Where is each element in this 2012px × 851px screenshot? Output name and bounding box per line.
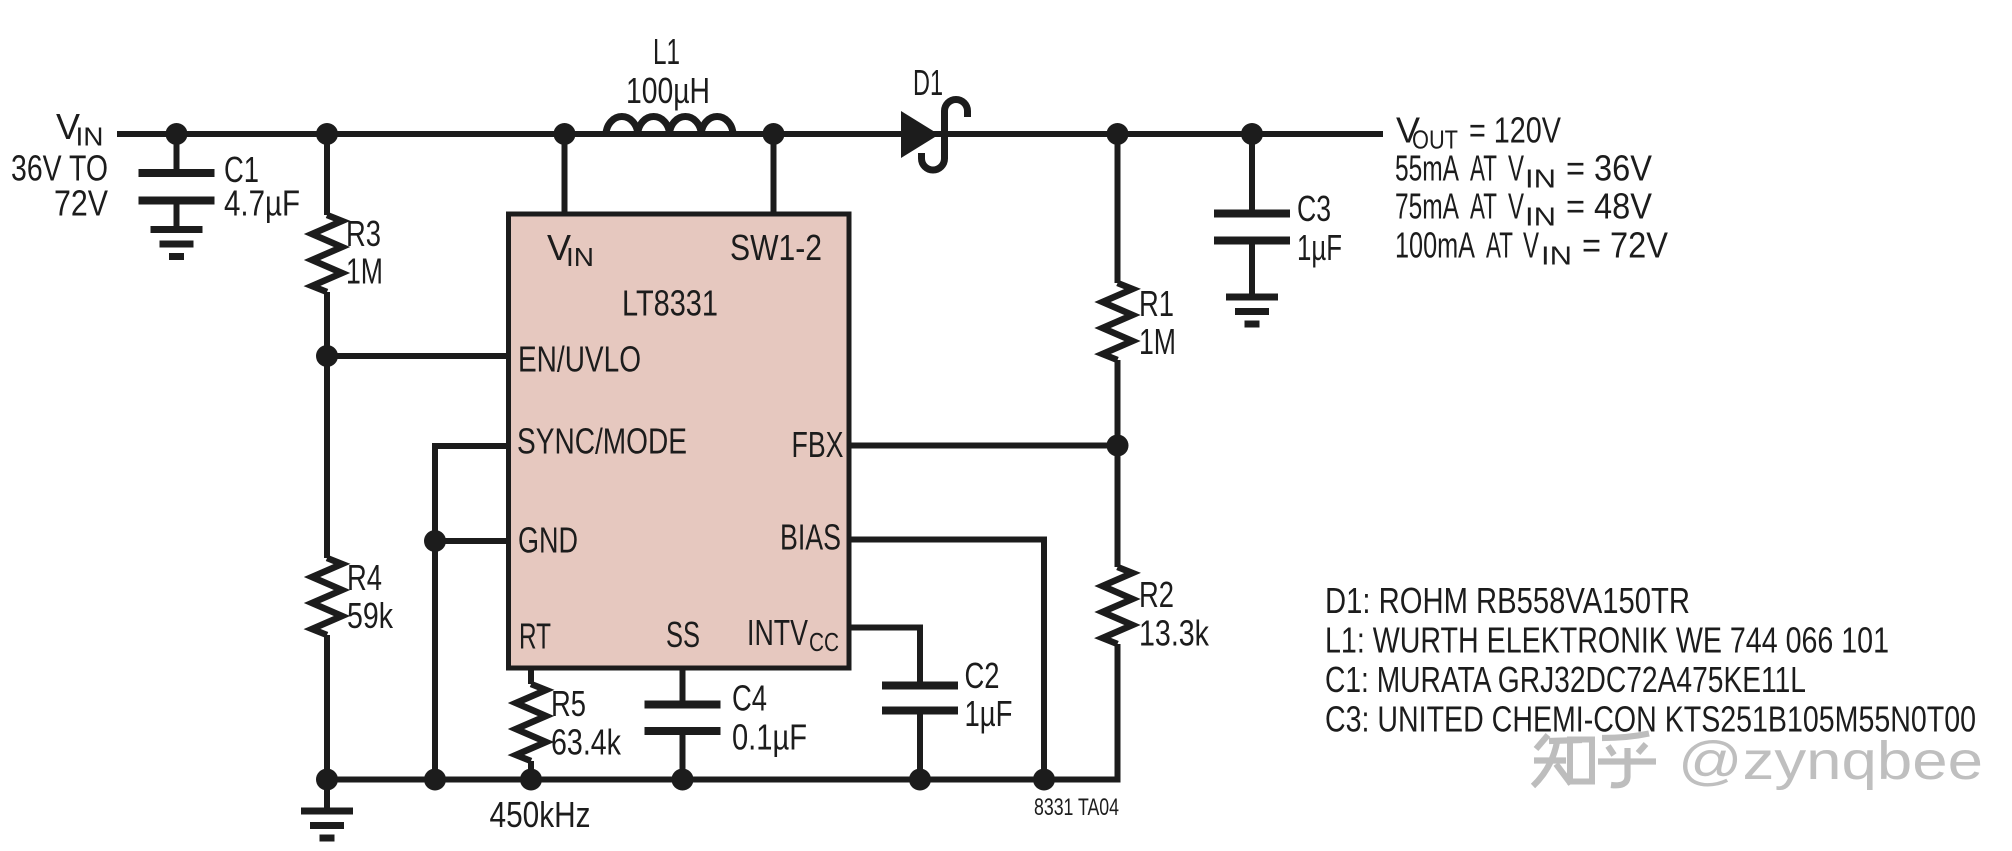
svg-text:= 48V: = 48V bbox=[1566, 186, 1652, 227]
svg-text:@zynqbee: @zynqbee bbox=[1678, 731, 1983, 791]
svg-text:CC: CC bbox=[809, 627, 839, 657]
wire: C4 lower lead bbox=[680, 731, 686, 780]
capacitor C2 bbox=[882, 682, 958, 690]
svg-text:V: V bbox=[1508, 148, 1524, 189]
wire: C3 upper lead bbox=[1249, 134, 1255, 214]
wire: R4 upper lead bbox=[324, 356, 330, 558]
node: output rail C3 tap bbox=[1241, 123, 1263, 145]
svg-text:EN/UVLO: EN/UVLO bbox=[518, 339, 641, 380]
resistor R5 bbox=[516, 684, 546, 761]
wire: BIAS horizontal bbox=[849, 537, 1044, 543]
svg-text:V: V bbox=[1508, 186, 1524, 227]
node: bus-C4 junction bbox=[672, 769, 694, 791]
wire: R5 lower lead bbox=[528, 761, 534, 780]
wire: R3 upper lead bbox=[324, 134, 330, 215]
wire: R1 upper lead bbox=[1115, 134, 1121, 283]
op-amp U1 LT8331 body bbox=[509, 214, 850, 668]
wire: C2 lower lead bbox=[917, 711, 923, 780]
svg-text:55mA: 55mA bbox=[1395, 148, 1459, 189]
wire: FBX net bbox=[849, 443, 1118, 449]
wire: VIN pin bbox=[562, 134, 568, 214]
wire: R3 lower lead bbox=[324, 292, 330, 356]
wire: R4 lower lead bbox=[324, 635, 330, 780]
wire: C1 upper lead bbox=[174, 134, 180, 173]
wire: GND pin stub bbox=[435, 538, 508, 544]
wire: ground bus bbox=[327, 777, 1121, 783]
svg-text:IN: IN bbox=[1541, 241, 1572, 271]
svg-text:0.1µF: 0.1µF bbox=[732, 717, 807, 758]
svg-text:AT: AT bbox=[1470, 186, 1497, 227]
wire: R2 lower lead bbox=[1115, 644, 1121, 783]
svg-text:SYNC/MODE: SYNC/MODE bbox=[517, 421, 687, 462]
svg-text:= 72V: = 72V bbox=[1582, 225, 1668, 266]
capacitor C3 bbox=[1214, 210, 1290, 218]
svg-text:L1: L1 bbox=[653, 31, 680, 72]
resistor R1 bbox=[1103, 283, 1133, 360]
node: output rail R1 tap bbox=[1107, 123, 1129, 145]
svg-text:1µF: 1µF bbox=[965, 693, 1013, 734]
ground (main bus) bbox=[301, 808, 353, 815]
svg-text:63.4k: 63.4k bbox=[551, 722, 622, 763]
wire: BIAS vertical to bus bbox=[1041, 537, 1047, 780]
node: SW node junction bbox=[763, 123, 785, 145]
wire: SS pin stub bbox=[680, 668, 686, 705]
svg-text:R1: R1 bbox=[1139, 283, 1174, 324]
wire: R1 lower lead bbox=[1115, 360, 1121, 446]
inductor L1 bbox=[606, 117, 733, 134]
svg-text:1µF: 1µF bbox=[1297, 227, 1342, 268]
svg-text:BIAS: BIAS bbox=[780, 517, 841, 558]
capacitor C1 bbox=[139, 169, 215, 177]
svg-text:GND: GND bbox=[518, 520, 578, 561]
watermark zhihu logo bbox=[1533, 734, 1656, 787]
svg-text:450kHz: 450kHz bbox=[490, 794, 591, 835]
svg-text:SW1-2: SW1-2 bbox=[730, 227, 822, 268]
diode D1 anode triangle bbox=[901, 111, 939, 158]
node: VIN pin tap bbox=[554, 123, 576, 145]
svg-text:RT: RT bbox=[519, 616, 551, 657]
wire: ground stem below bus bbox=[324, 780, 330, 812]
node: FBX junction on divider bbox=[1107, 435, 1129, 457]
svg-text:IN: IN bbox=[566, 242, 594, 272]
wire: INTVCC stub bbox=[849, 625, 920, 631]
wire: SW pin bbox=[771, 134, 777, 214]
svg-text:C1: MURATA GRJ32DC72A475KE11L: C1: MURATA GRJ32DC72A475KE11L bbox=[1325, 659, 1806, 700]
svg-text:75mA: 75mA bbox=[1395, 186, 1459, 227]
svg-text:C2: C2 bbox=[965, 655, 1000, 696]
svg-text:100mA: 100mA bbox=[1395, 225, 1475, 266]
svg-text:R5: R5 bbox=[551, 683, 586, 724]
svg-text:R3: R3 bbox=[346, 213, 381, 254]
svg-text:SS: SS bbox=[666, 614, 700, 655]
svg-text:8331 TA04: 8331 TA04 bbox=[1034, 794, 1119, 821]
svg-text:INTV: INTV bbox=[747, 612, 808, 653]
svg-text:= 120V: = 120V bbox=[1469, 110, 1561, 151]
svg-text:L1: WURTH ELEKTRONIK WE 744 06: L1: WURTH ELEKTRONIK WE 744 066 101 bbox=[1325, 620, 1889, 661]
node: bus-C2 junction bbox=[909, 769, 931, 791]
node: VIN input junction (C1 tap) bbox=[166, 123, 188, 145]
node: bus-SYNC junction bbox=[424, 769, 446, 791]
svg-text:R4: R4 bbox=[347, 557, 382, 598]
ground (C3) bbox=[1226, 294, 1278, 301]
capacitor C4 bbox=[645, 701, 721, 709]
svg-text:AT: AT bbox=[1486, 225, 1513, 266]
svg-text:13.3k: 13.3k bbox=[1139, 613, 1210, 654]
svg-text:LT8331: LT8331 bbox=[622, 283, 718, 324]
svg-text:FBX: FBX bbox=[792, 424, 844, 465]
wire: SYNC/MODE pin stub bbox=[435, 443, 508, 449]
resistor R3 bbox=[312, 215, 342, 292]
svg-text:D1: ROHM RB558VA150TR: D1: ROHM RB558VA150TR bbox=[1325, 580, 1690, 621]
node: R3 tap on input rail bbox=[316, 123, 338, 145]
diode D1 schottky cathode bar bbox=[922, 100, 968, 171]
node: GND pin junction bbox=[424, 530, 446, 552]
ground (C1) bbox=[151, 226, 203, 233]
node: bus-BIAS junction bbox=[1033, 769, 1055, 791]
resistor R4 bbox=[312, 558, 342, 635]
svg-text:C4: C4 bbox=[732, 678, 767, 719]
svg-text:IN: IN bbox=[1525, 164, 1556, 194]
svg-text:1M: 1M bbox=[346, 251, 383, 292]
svg-text:V: V bbox=[1523, 225, 1539, 266]
wire: INTVCC to C2 bbox=[917, 625, 923, 686]
wire: C1 lower lead bbox=[174, 201, 180, 230]
svg-text:R2: R2 bbox=[1139, 574, 1174, 615]
svg-text:1M: 1M bbox=[1139, 321, 1176, 362]
resistor R2 bbox=[1103, 567, 1133, 644]
svg-text:= 36V: = 36V bbox=[1566, 148, 1652, 189]
svg-text:AT: AT bbox=[1470, 148, 1497, 189]
wire: R2 upper lead bbox=[1115, 446, 1121, 568]
node: EN/UVLO junction bbox=[316, 345, 338, 367]
svg-text:59k: 59k bbox=[347, 595, 394, 636]
node: bus-R4 junction bbox=[316, 769, 338, 791]
wire: RT pin stub bbox=[528, 668, 534, 684]
wire: SYNC/MODE vertical to gnd bus bbox=[432, 443, 438, 780]
node: bus-R5 junction bbox=[520, 769, 542, 791]
svg-text:D1: D1 bbox=[913, 62, 943, 103]
svg-text:C3: C3 bbox=[1297, 188, 1331, 229]
wire: C3 lower lead bbox=[1249, 241, 1255, 298]
svg-text:4.7µF: 4.7µF bbox=[224, 183, 300, 224]
wire: EN/UVLO pin bbox=[327, 353, 508, 359]
wire: main top rail VIN to VOUT bbox=[117, 131, 1383, 137]
svg-text:72V: 72V bbox=[54, 183, 108, 224]
svg-text:100µH: 100µH bbox=[626, 70, 710, 111]
